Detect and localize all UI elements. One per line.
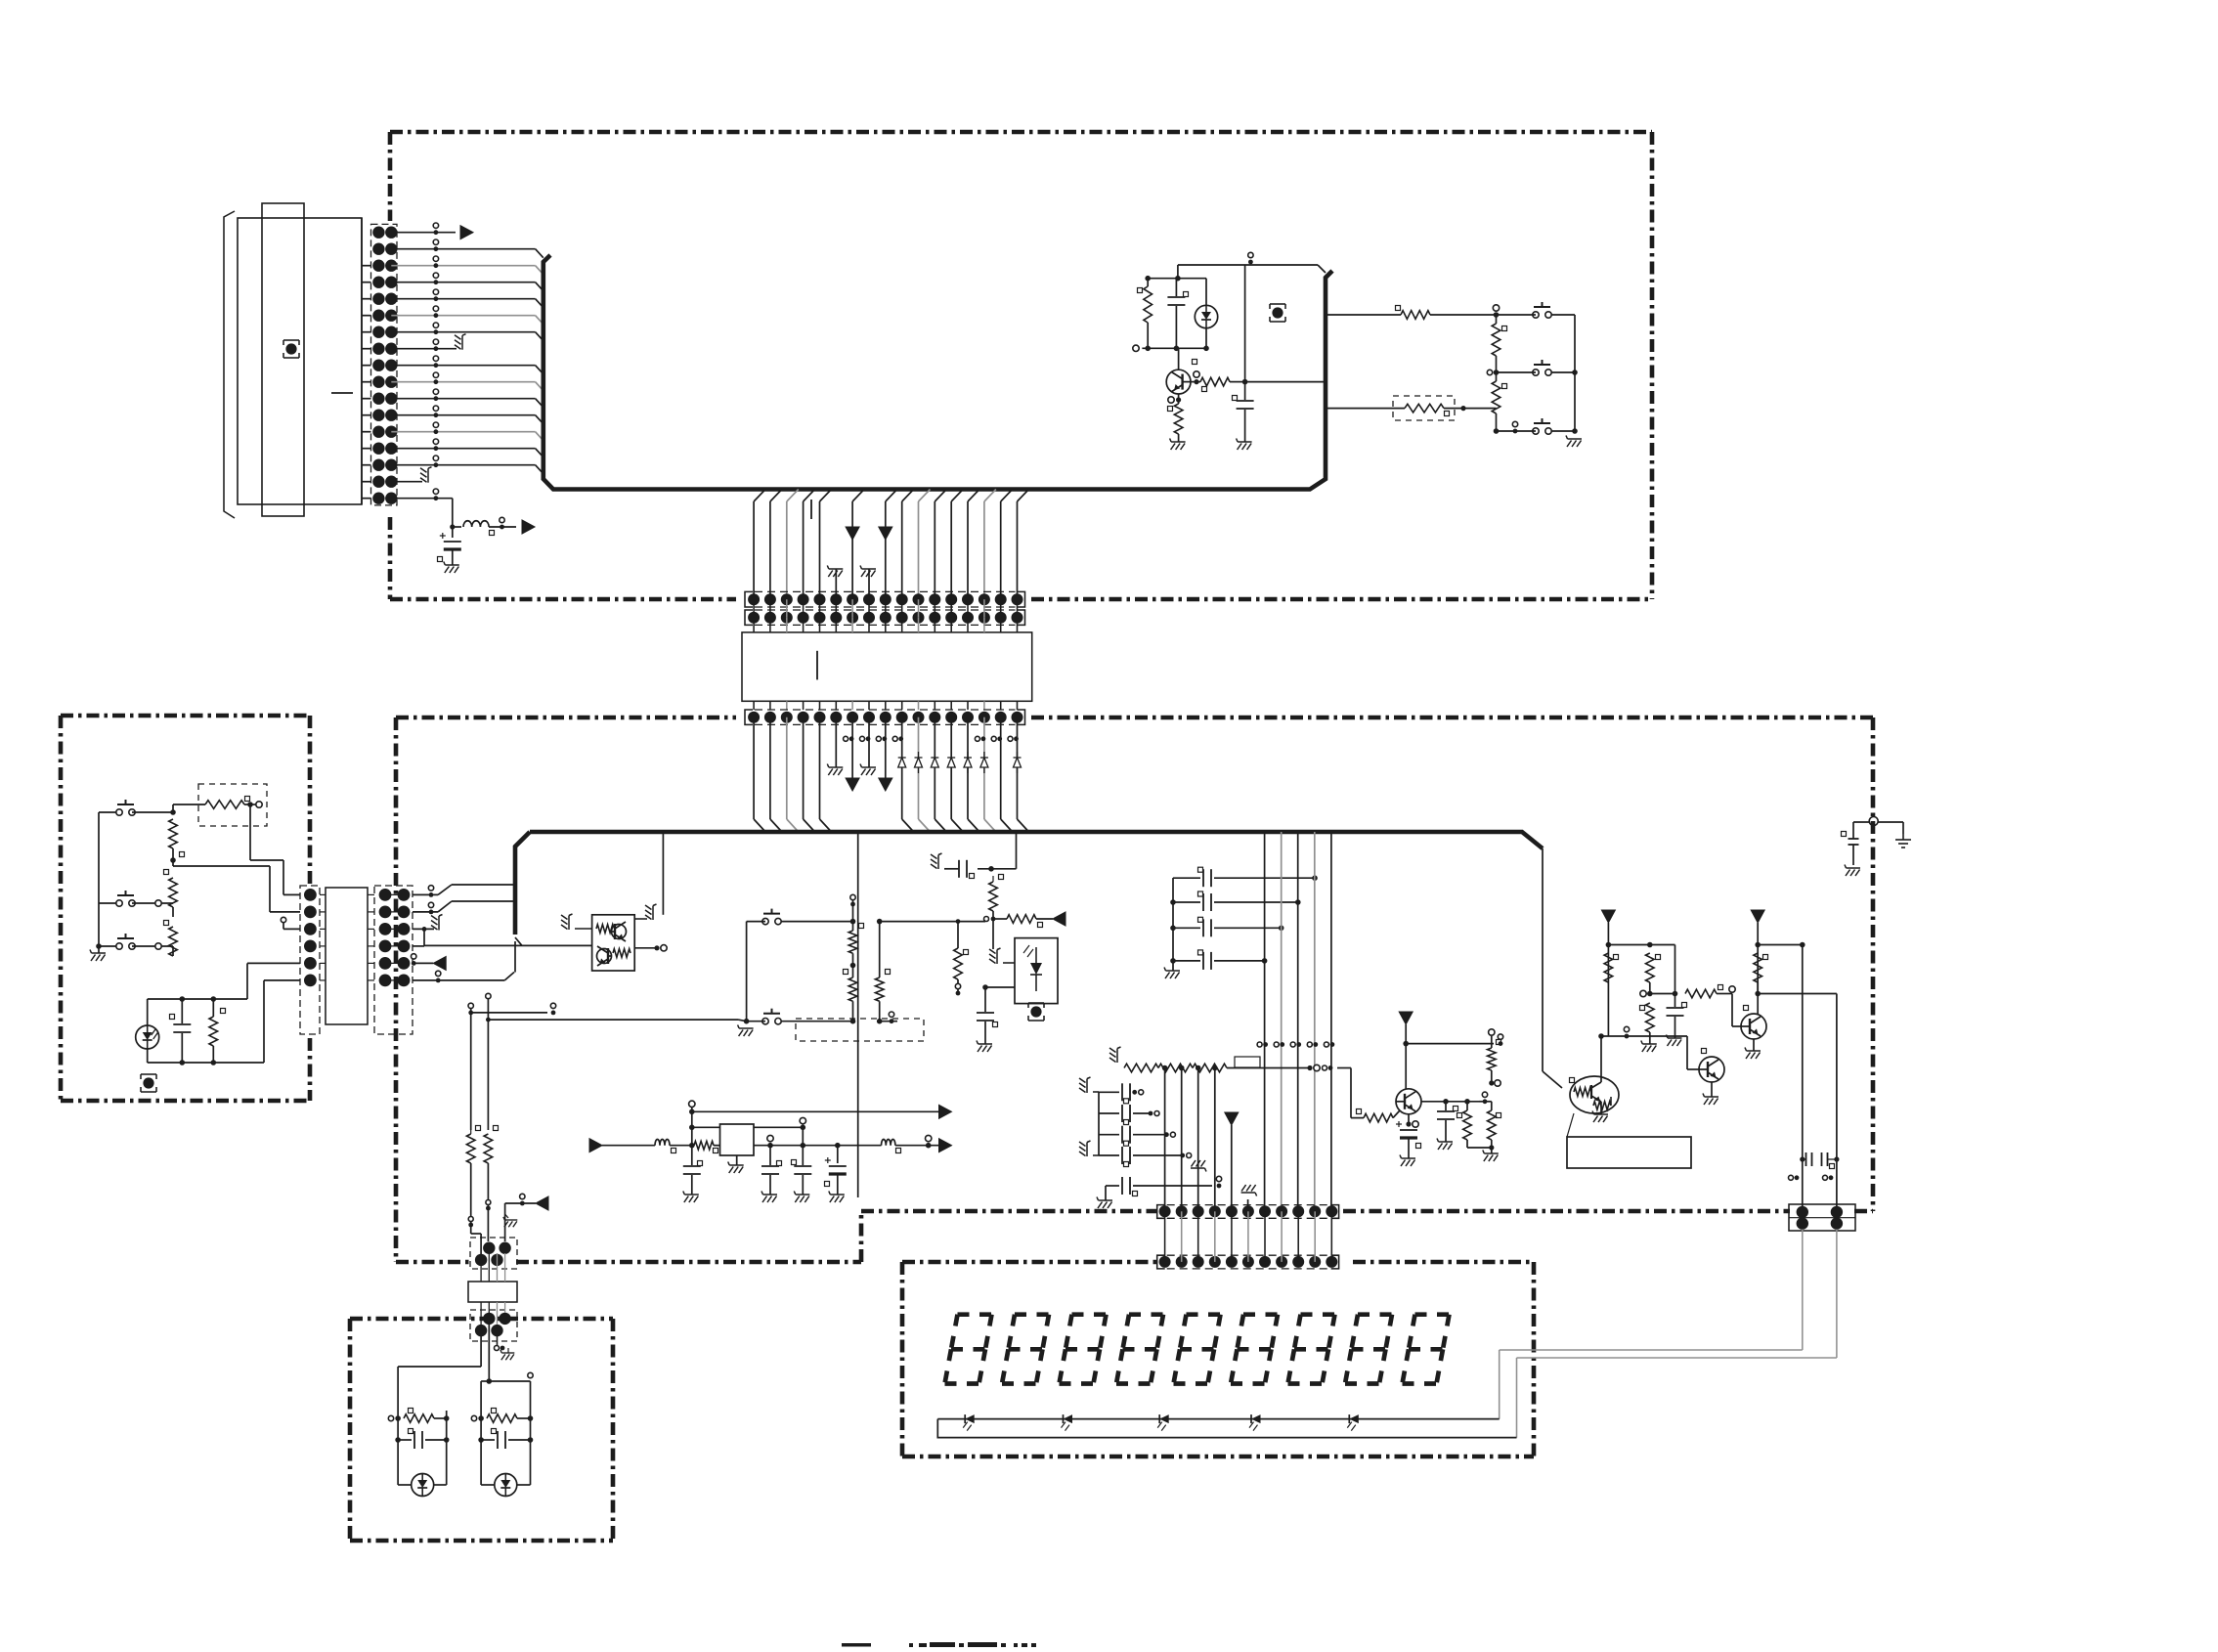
wire CN101 to system control block xyxy=(391,282,535,283)
wire CN302 pin4 to opto net xyxy=(413,945,424,947)
flat cable (IC-like) body xyxy=(742,632,1032,701)
resistor R311 xyxy=(1604,953,1613,982)
resistor R103 xyxy=(1492,381,1500,413)
capacitor C201 xyxy=(683,1165,701,1167)
connector CN303 (2x2, front side) xyxy=(470,1238,517,1269)
resistor R110 xyxy=(1144,286,1152,323)
divider resistor chain 1 xyxy=(852,894,854,931)
key switch S2 xyxy=(116,900,122,906)
wire CN101 to system control block xyxy=(391,315,535,317)
wire bus drop x878 xyxy=(857,832,859,1197)
power arrow right cluster 2 xyxy=(1751,910,1764,923)
wire CN101 to system control block xyxy=(391,431,535,433)
led block 1 resistor xyxy=(388,1415,393,1420)
tuner module bracket xyxy=(224,211,235,518)
key switch S1 xyxy=(116,809,122,815)
key switch S3 xyxy=(116,943,122,949)
page footer marks xyxy=(842,1642,1036,1647)
resistor R301 xyxy=(470,1130,472,1134)
ground to CN401 col6 xyxy=(1241,1185,1257,1196)
option resistor (dashed box) xyxy=(198,784,267,826)
connector CN305 (2x2) xyxy=(1789,1204,1855,1231)
regulator IC201 xyxy=(720,1124,755,1155)
wire opto output xyxy=(634,947,657,949)
protection diodes on CN202 columns xyxy=(898,758,906,767)
wire IC301 vcc xyxy=(992,919,994,949)
right rail switches xyxy=(1574,315,1576,431)
capacitor C311 xyxy=(1650,993,1675,995)
jumpers on grid lines xyxy=(1257,1042,1262,1047)
inductor L201 xyxy=(655,1140,670,1146)
jumpers audio lines xyxy=(1789,1175,1794,1180)
test point keyboard xyxy=(143,1077,153,1088)
ground key matrix xyxy=(96,943,102,949)
capacitor remocon xyxy=(180,996,186,1002)
power arrow down CN202 col6 xyxy=(851,717,853,780)
wire CN101 to system control block xyxy=(391,448,535,450)
ground coupling caps xyxy=(1079,1077,1091,1093)
wire key net right xyxy=(880,921,985,923)
wire R301 to CN303 xyxy=(470,1163,472,1225)
wires CN202 to front bus xyxy=(753,717,755,819)
capacitor C320 between audio lines xyxy=(1805,1152,1807,1166)
resistor R315 xyxy=(1758,944,1803,946)
resistor R224 top xyxy=(1488,1048,1497,1070)
power arrow right cluster 1 xyxy=(1601,910,1615,923)
ground switch cluster xyxy=(1557,431,1559,439)
led block 2 capacitor xyxy=(478,1437,484,1443)
option dashed box mid xyxy=(796,1019,924,1041)
capacitor C204 electrolytic xyxy=(837,1146,839,1163)
connector CN201 row A (17 pin) xyxy=(745,591,753,607)
wire option resistor to CN301 xyxy=(249,804,251,860)
wire CN101 to system control block xyxy=(391,398,535,400)
tuner test point xyxy=(285,343,296,354)
connector body CN301-CN302 xyxy=(326,888,368,1024)
wire CN101 to system control block xyxy=(391,331,535,333)
connector CN401 (11 pin, front side) xyxy=(1157,1205,1165,1219)
wire CN101 to system control block xyxy=(391,414,535,416)
emitter resistor R111 xyxy=(1178,394,1180,404)
connector CN302 (front board side, 2x6) xyxy=(374,886,413,1034)
cable tick mark xyxy=(816,651,818,680)
top rail led cluster xyxy=(1178,264,1318,266)
ground below C101 xyxy=(452,549,454,565)
connector CN202 (17 pin) xyxy=(745,710,753,724)
wire R302 to CN303 xyxy=(487,1163,489,1208)
system control block outline (thick) xyxy=(544,255,1332,490)
wire base junction to top rail xyxy=(1244,265,1246,382)
ground col5 xyxy=(835,569,837,599)
ground switch rail xyxy=(744,1019,750,1024)
resonator box xyxy=(1567,1137,1691,1168)
wire from jumper to base xyxy=(1337,1067,1351,1069)
wire CN101 to system control block xyxy=(391,365,535,367)
ground Q303 xyxy=(1753,1039,1755,1051)
inductor L202 xyxy=(882,1140,895,1146)
node Q201 collector rail xyxy=(1403,1041,1409,1047)
base resistor R221 xyxy=(1364,1113,1393,1122)
grid line verticals from bus xyxy=(1264,832,1266,1211)
links row A to row B xyxy=(753,599,755,618)
wire to audio right xyxy=(1758,993,1837,995)
timer switch S12 xyxy=(762,1019,768,1024)
ground left of opto xyxy=(575,928,592,930)
ground right of opto xyxy=(634,918,647,920)
wire to led resistors xyxy=(468,1003,473,1008)
led D301 xyxy=(412,1474,434,1497)
switch S102 xyxy=(1533,370,1539,375)
inductor L101 xyxy=(463,521,489,527)
ground C210 xyxy=(931,853,942,869)
resistor R313 xyxy=(1646,1003,1655,1032)
resistor R215 xyxy=(956,919,961,924)
bus wires block to CN201 xyxy=(754,490,765,502)
wire feedthrough left xyxy=(1853,821,1869,823)
capacitor C221 xyxy=(1445,1102,1447,1110)
wire CN101 to system control block xyxy=(391,265,535,267)
remocon sensor circuit xyxy=(148,998,247,1000)
power arrow B+ xyxy=(522,520,535,534)
mute arrow xyxy=(1053,912,1066,926)
transistor Q201 xyxy=(1396,1089,1421,1114)
segment resistor row xyxy=(1109,1047,1121,1063)
resistor R314 horizontal xyxy=(1685,989,1717,998)
key matrix left rail xyxy=(98,812,100,946)
collector to divider xyxy=(1421,1101,1479,1103)
connector body CN303-CN304 xyxy=(468,1282,517,1302)
feedthrough circle on border xyxy=(1869,817,1878,826)
wire base to block xyxy=(1245,381,1326,383)
Q301 collector up xyxy=(1600,1036,1602,1082)
ground Q302 xyxy=(1711,1082,1713,1097)
opto coupler PC101 xyxy=(592,915,635,971)
wire IC301 out xyxy=(985,986,1015,988)
audio lines to CN305 xyxy=(1802,945,1804,1207)
connector CN304 (2x2, led board side) xyxy=(470,1310,517,1341)
main board outline (top dash-dot box) xyxy=(390,130,1652,135)
transistor Q303 xyxy=(1741,1014,1766,1039)
test point IR xyxy=(1030,1006,1041,1017)
wire remocon to CN301 xyxy=(246,963,248,999)
wire block to option resistor xyxy=(1326,408,1405,410)
ground CN202 col5 xyxy=(835,717,837,767)
wire CN101 pin8 to ground xyxy=(391,348,457,350)
fluorescent display outline (display dash-dot box) xyxy=(902,1260,1156,1265)
front board bus (thick) xyxy=(530,832,1543,848)
ground display wire xyxy=(1214,1178,1216,1186)
ground C201 xyxy=(683,1192,699,1203)
wire inductor to arrow xyxy=(489,526,516,528)
resistor ladder keyboard xyxy=(152,811,173,813)
wire bus to opto xyxy=(662,832,664,915)
regulator output rail xyxy=(754,1145,882,1147)
wire CN101 pin17 power branch xyxy=(391,498,453,500)
signal arrow right xyxy=(460,226,473,239)
resistor R222 xyxy=(1463,1110,1472,1140)
top rail to standby arrow xyxy=(692,1110,938,1112)
connector CN402 (11 pin, display side) xyxy=(1157,1255,1165,1269)
wire bus drop x1039 xyxy=(1016,832,1018,869)
output arrow xyxy=(895,1145,938,1147)
wire feedthrough right to earth xyxy=(1878,821,1903,823)
resistor R102 xyxy=(1492,324,1500,356)
regulator ground xyxy=(736,1155,738,1165)
capacitor C211 xyxy=(984,987,986,1012)
wire CN101 to system control block xyxy=(391,464,535,466)
resistor R223 xyxy=(1488,1110,1497,1140)
wire CN101 to system control block xyxy=(391,248,535,250)
bottom node led cluster xyxy=(1142,347,1206,349)
wire bus tail to opto input xyxy=(515,937,522,945)
led block 2 resistor xyxy=(471,1415,476,1420)
transistor Q302 xyxy=(1699,1057,1724,1082)
wire CN101 pin16 to ground xyxy=(391,481,422,483)
wires CN302 into front board xyxy=(413,893,438,895)
capacitor C101 electrolytic xyxy=(452,527,454,538)
resistor R302 xyxy=(484,1134,493,1163)
capacitor C111 xyxy=(1244,382,1246,400)
coupling caps segment xyxy=(1098,1092,1100,1155)
input vertical rail xyxy=(689,1101,695,1107)
front board outline (lower dash-dot box) xyxy=(396,716,736,720)
wire node to regulator top xyxy=(692,1126,720,1128)
switch rail left xyxy=(746,922,748,1022)
test point main xyxy=(1272,307,1283,318)
IR receiver IC301 xyxy=(1015,938,1058,1004)
divider resistor chain 2 xyxy=(879,922,881,978)
ground CN303 area xyxy=(505,1214,508,1218)
ground col7 xyxy=(868,569,870,599)
capacitor C210 xyxy=(978,868,1017,870)
rail plate xyxy=(1148,278,1206,280)
pin1 tick mark xyxy=(810,500,812,519)
segment verticals to CN401 xyxy=(1164,1068,1166,1212)
display digit segments xyxy=(945,1315,1450,1384)
capacitor C203 xyxy=(802,1146,804,1165)
ground Q301 xyxy=(1605,1106,1607,1114)
wire CN302 pin5 arrow xyxy=(413,962,433,964)
wire block to R101 xyxy=(1326,307,1336,315)
base resistor R112 xyxy=(1191,381,1200,383)
wire CN101 pin1 to arrow xyxy=(391,232,456,234)
node rail right xyxy=(1608,944,1649,946)
power arrow led rail xyxy=(504,1203,506,1241)
resistor R201 xyxy=(694,1141,714,1150)
connector CN201 row B (17 pin) xyxy=(745,610,753,625)
regulator output top xyxy=(754,1126,803,1128)
power arrow down col6 xyxy=(852,490,864,502)
power switch S101 xyxy=(1533,312,1539,318)
power input arrow xyxy=(589,1139,602,1152)
ground IC301 xyxy=(1003,962,1015,964)
wire CN101 to system control block xyxy=(391,298,535,300)
timer switch S11 xyxy=(762,918,768,924)
led sub board outline (bottom-left dash-dot box) xyxy=(350,1317,613,1322)
capacitor C330 xyxy=(1848,838,1859,840)
connector CN101 tuner-main (2x17) xyxy=(371,224,398,505)
wires row B to cable xyxy=(753,618,755,632)
tuner module body xyxy=(238,218,362,504)
wires tuner to CN101 xyxy=(362,265,371,267)
wires CN305 to display xyxy=(1802,1230,1804,1350)
wires CN401 to CN402 xyxy=(1164,1211,1166,1262)
wire bus end down xyxy=(1542,848,1544,1071)
option chip (small box) xyxy=(1235,1057,1260,1067)
jumper and ground CN304 xyxy=(497,1336,499,1348)
wire CN304 to led block 1 xyxy=(480,1330,482,1367)
node regulator input xyxy=(670,1145,694,1147)
wire CN101 to system control block xyxy=(391,381,535,383)
led D302 xyxy=(495,1474,517,1497)
option resistor dashed box top xyxy=(1393,396,1455,420)
resistor R210 xyxy=(992,876,994,882)
ground CN202 col7 xyxy=(868,717,870,767)
wire Q301 to Q302 base xyxy=(1601,1035,1633,1037)
wire top rail up xyxy=(1244,265,1246,382)
keyboard sub board outline (left dash-dot box) xyxy=(61,714,310,718)
led block 1 capacitor xyxy=(395,1437,401,1443)
wires cable to CN202 xyxy=(753,701,755,710)
switch S103 xyxy=(1533,428,1539,434)
ground caps network xyxy=(1164,968,1180,979)
resistor R101 xyxy=(1401,311,1430,320)
power arrow down CN202 col8 xyxy=(885,717,887,780)
capacitor C202 xyxy=(769,1146,771,1165)
wire keyboard ground to CN301 xyxy=(98,946,100,953)
resistor R211 to arrow xyxy=(993,918,1007,920)
caps to grid lines xyxy=(1172,878,1174,971)
jumpers on CN202 columns xyxy=(844,736,848,741)
resistor R312 xyxy=(1646,953,1655,982)
wire CN302 pin6 to bus tail xyxy=(413,979,438,981)
power arrow Q201 xyxy=(1399,1012,1413,1024)
digital transistor Q301 xyxy=(1570,1076,1619,1113)
display filament rail xyxy=(937,1418,1499,1420)
ground mid xyxy=(1191,1160,1206,1172)
connector CN301 (keyboard side, 1x6) xyxy=(300,886,320,1034)
wire CN304 to led block 2 xyxy=(488,1325,490,1381)
transistor Q101 xyxy=(1166,370,1191,394)
cap bottom extra xyxy=(1106,1185,1119,1187)
filament diodes xyxy=(965,1414,975,1423)
emitter cap xyxy=(1408,1114,1410,1124)
power arrow segment rail xyxy=(1225,1112,1239,1125)
resistor remocon xyxy=(211,996,217,1002)
tuner inner block xyxy=(262,203,304,516)
wire CN302 pin3 ground xyxy=(413,928,434,930)
power arrow down col8 xyxy=(886,490,897,502)
power LED D101 xyxy=(1195,305,1217,327)
tuner dash mark xyxy=(331,392,353,394)
capacitor C110 xyxy=(1175,279,1177,296)
